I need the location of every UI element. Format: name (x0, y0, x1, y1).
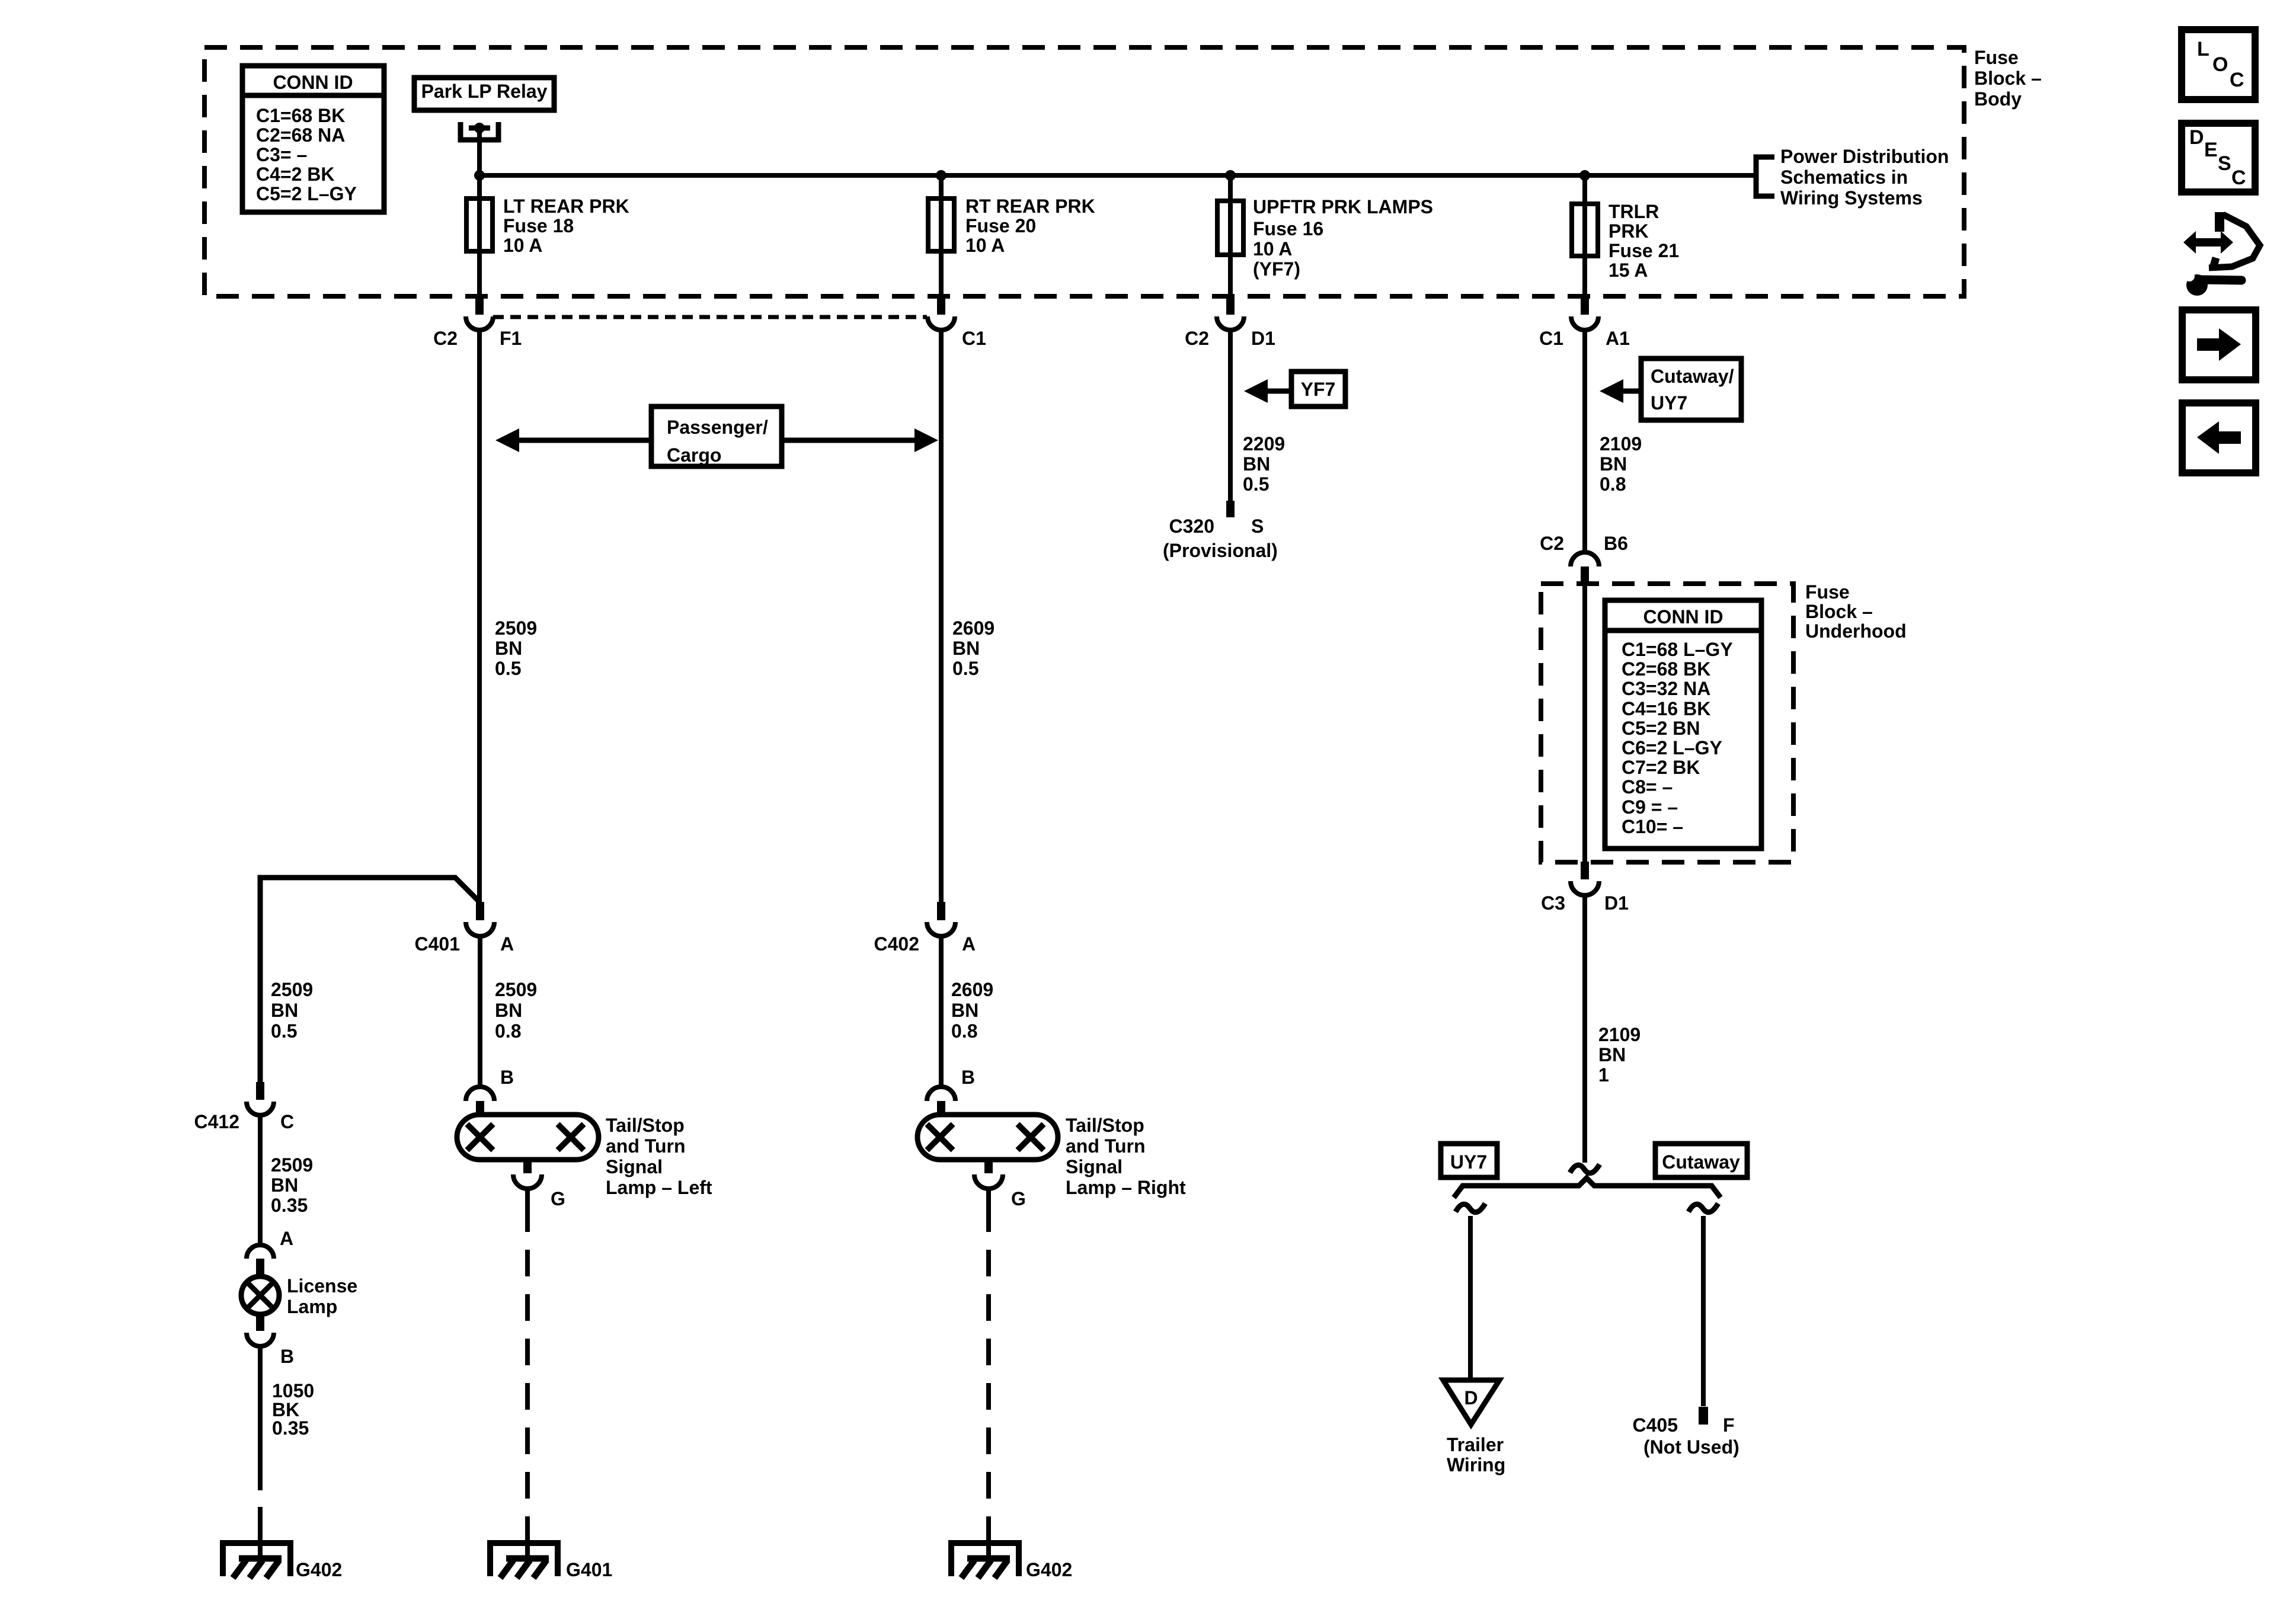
svg-text:S: S (1251, 516, 1264, 537)
connector pin G - right lamp (974, 1160, 1026, 1209)
connector pin G - left lamp (513, 1160, 565, 1209)
svg-text:Lamp: Lamp (287, 1296, 337, 1317)
lamp - tail/stop and turn signal lamp left (457, 1115, 712, 1198)
svg-text:G: G (551, 1188, 565, 1209)
svg-text:15 A: 15 A (1609, 260, 1648, 281)
svg-text:2509: 2509 (495, 617, 537, 639)
svg-text:2509: 2509 (271, 979, 313, 1000)
svg-text:E: E (2204, 139, 2218, 161)
svg-text:YF7: YF7 (1301, 379, 1336, 400)
CONN ID table - fuse block body (242, 66, 384, 212)
svg-text:Power Distribution: Power Distribution (1780, 146, 1949, 167)
svg-text:Schematics in: Schematics in (1780, 167, 1908, 188)
svg-text:O: O (2212, 53, 2228, 76)
svg-text:G402: G402 (1026, 1559, 1072, 1580)
svg-text:BN: BN (495, 1000, 522, 1021)
svg-text:UPFTR PRK LAMPS: UPFTR PRK LAMPS (1253, 196, 1433, 217)
svg-text:C320: C320 (1169, 516, 1215, 537)
connector C402 pin A (874, 902, 976, 955)
svg-text:C1=68 L–GY: C1=68 L–GY (1622, 639, 1733, 660)
wire - branch to license lamp (260, 878, 480, 1082)
svg-text:Underhood: Underhood (1805, 620, 1907, 642)
svg-text:C1: C1 (1539, 328, 1563, 349)
svg-text:B: B (961, 1067, 975, 1088)
svg-text:Fuse 16: Fuse 16 (1253, 218, 1323, 239)
connector pin A - license lamp (247, 1228, 293, 1275)
svg-text:A1: A1 (1606, 328, 1630, 349)
svg-text:0.35: 0.35 (272, 1417, 309, 1439)
connector C1 (fuse block body, RT) (928, 295, 986, 349)
svg-text:TRLR: TRLR (1609, 201, 1659, 222)
option arrow Cutaway/UY7 (1600, 359, 1741, 420)
wire label 2109 BN 0.8 (1600, 433, 1642, 495)
svg-text:F1: F1 (500, 328, 522, 349)
svg-text:C5=2 L–GY: C5=2 L–GY (256, 183, 357, 204)
svg-text:BN: BN (952, 638, 980, 659)
fuse 21 TRLR PRK (1572, 201, 1679, 281)
sidebar icon forward arrow (2182, 310, 2256, 380)
wire label 2609 BN 0.8 (951, 979, 993, 1042)
sidebar icon LOC (2182, 30, 2255, 100)
Cutaway option label box (1655, 1144, 1747, 1177)
svg-text:A: A (280, 1228, 293, 1249)
svg-text:0.8: 0.8 (951, 1020, 977, 1042)
connector pin B - license lamp (247, 1333, 294, 1367)
svg-text:0.5: 0.5 (495, 658, 521, 679)
wire 2109 BN 1 - C3 to option split (1582, 895, 1587, 1163)
svg-text:CONN ID: CONN ID (273, 72, 353, 93)
wire - fuse 20 feed (939, 175, 944, 296)
wire - fuse 18 feed (477, 175, 482, 296)
svg-text:1050: 1050 (272, 1380, 314, 1401)
svg-text:2209: 2209 (1243, 433, 1285, 454)
svg-text:C1=68 BK: C1=68 BK (256, 105, 345, 126)
svg-text:CONN ID: CONN ID (1643, 606, 1723, 628)
svg-text:BN: BN (271, 1174, 298, 1196)
connector pin B - right lamp (927, 1067, 975, 1115)
svg-text:Cargo: Cargo (667, 444, 721, 466)
svg-text:Cutaway/: Cutaway/ (1651, 366, 1734, 387)
svg-text:C10= –: C10= – (1622, 816, 1683, 837)
svg-text:C3=32 NA: C3=32 NA (1622, 678, 1710, 699)
svg-text:C2: C2 (1185, 328, 1209, 349)
svg-text:Fuse: Fuse (1974, 47, 2019, 68)
svg-text:(YF7): (YF7) (1253, 258, 1300, 280)
svg-text:(Provisional): (Provisional) (1163, 540, 1278, 561)
svg-text:B6: B6 (1604, 533, 1628, 554)
svg-text:C3: C3 (1541, 892, 1565, 914)
svg-text:BN: BN (271, 1000, 298, 1021)
svg-text:UY7: UY7 (1651, 392, 1687, 414)
wire break symbol - Cutaway branch (1689, 1204, 1718, 1212)
connector C2 pin D1 (fuse block body) (1185, 295, 1275, 349)
destination triangle D - trailer wiring (1443, 1380, 1505, 1475)
svg-text:C4=16 BK: C4=16 BK (1622, 698, 1710, 719)
svg-text:Wiring: Wiring (1447, 1454, 1505, 1475)
svg-text:A: A (962, 933, 976, 955)
connector C2 pin F1 (fuse block body) (433, 295, 522, 349)
svg-text:BN: BN (1600, 453, 1627, 475)
svg-text:C412: C412 (194, 1111, 240, 1132)
svg-text:BN: BN (951, 1000, 978, 1021)
svg-text:D1: D1 (1251, 328, 1275, 349)
connector C412 pin C (194, 1082, 295, 1132)
UY7 option label box (1441, 1144, 1497, 1177)
wire 2609 BN 0.5 - fuse 20 to C402 (939, 330, 944, 902)
wire label 2509 BN 0.35 (271, 1154, 313, 1216)
svg-text:UY7: UY7 (1450, 1151, 1487, 1173)
wire - UY7 branch to trailer wiring (1468, 1216, 1473, 1380)
svg-text:C5=2 BN: C5=2 BN (1622, 718, 1700, 739)
svg-text:BN: BN (495, 638, 522, 659)
svg-text:Block –: Block – (1974, 68, 2042, 89)
svg-text:C402: C402 (874, 933, 920, 955)
svg-text:Signal: Signal (606, 1156, 663, 1177)
wire 2509 BN 0.8 - C401 to lamp (478, 936, 482, 1087)
wire 2209 BN 0.5 - fuse 16 to C320 (1228, 330, 1233, 501)
wire - right lamp ground lead (986, 1189, 991, 1543)
connector C1 pin A1 (fuse block body) (1539, 295, 1630, 349)
wire label 2609 BN 0.5 (952, 617, 994, 679)
svg-text:G402: G402 (296, 1559, 342, 1580)
svg-text:Lamp – Right: Lamp – Right (1066, 1177, 1186, 1198)
svg-text:C: C (280, 1111, 294, 1132)
svg-text:0.8: 0.8 (495, 1020, 521, 1042)
svg-text:2609: 2609 (952, 617, 994, 639)
wire break symbol - UY7 branch (1456, 1204, 1485, 1212)
svg-text:S: S (2218, 152, 2231, 175)
connector C401 pin A (415, 902, 514, 955)
svg-text:2609: 2609 (951, 979, 993, 1000)
lamp - tail/stop and turn signal lamp right (917, 1115, 1186, 1198)
node - junction at fuse 18 (474, 170, 485, 181)
wire label 2109 BN 1 (1598, 1024, 1641, 1086)
dotted connector tie line (493, 315, 927, 319)
svg-text:D1: D1 (1604, 892, 1629, 914)
svg-text:Wiring Systems: Wiring Systems (1780, 187, 1923, 209)
wire label 2209 BN 0.5 (1243, 433, 1285, 495)
svg-text:Tail/Stop: Tail/Stop (1066, 1115, 1144, 1136)
sidebar icon back arrow (2182, 403, 2256, 473)
wire - through fuse block underhood (1582, 585, 1587, 862)
wire label 2509 BN 0.5 (branch) (271, 979, 313, 1042)
svg-text:Lamp – Left: Lamp – Left (606, 1177, 712, 1198)
relay K - park lamp relay contact (461, 122, 498, 140)
svg-text:Body: Body (1974, 88, 2022, 110)
svg-text:License: License (287, 1275, 357, 1297)
svg-text:and Turn: and Turn (606, 1135, 686, 1157)
wire 1050 BK 0.35 - license lamp ground lead (258, 1346, 263, 1543)
Park LP Relay label box (414, 78, 554, 110)
wire 2109 BN 0.8 - fuse 21 to C2 underhood (1582, 330, 1587, 552)
svg-text:C7=2 BK: C7=2 BK (1622, 757, 1700, 778)
wire - power feed bus (479, 173, 1756, 178)
wire - relay stem (477, 128, 482, 175)
svg-text:Cutaway: Cutaway (1662, 1151, 1740, 1173)
svg-text:2109: 2109 (1600, 433, 1642, 454)
svg-text:C: C (2230, 69, 2244, 91)
svg-text:F: F (1723, 1414, 1735, 1436)
svg-text:BN: BN (1598, 1044, 1626, 1065)
svg-text:LT REAR PRK: LT REAR PRK (503, 196, 629, 217)
wire 2509 BN 0.5 - fuse 18 to C401 (477, 330, 482, 902)
svg-text:2509: 2509 (271, 1154, 313, 1176)
svg-text:10 A: 10 A (1253, 238, 1292, 260)
svg-text:C2: C2 (433, 328, 458, 349)
fuse block - underhood label (1805, 581, 1907, 642)
svg-text:C8= –: C8= – (1622, 776, 1673, 798)
wire label 2509 BN 0.5 (upper left) (495, 617, 537, 679)
fuse 18 LT REAR PRK (466, 196, 629, 256)
svg-text:C4=2 BK: C4=2 BK (256, 164, 335, 185)
svg-text:Tail/Stop: Tail/Stop (606, 1115, 685, 1136)
svg-text:C405: C405 (1633, 1414, 1678, 1436)
bracket - power distribution reference (1756, 157, 1774, 196)
svg-text:C401: C401 (415, 933, 461, 955)
svg-text:Fuse: Fuse (1805, 581, 1850, 603)
node - junction at fuse 16 (1225, 170, 1236, 181)
power distribution reference label (1780, 146, 1949, 209)
svg-text:10 A: 10 A (965, 235, 1005, 256)
svg-text:Block –: Block – (1805, 601, 1873, 622)
svg-text:C6=2 L–GY: C6=2 L–GY (1622, 737, 1722, 758)
svg-text:C2: C2 (1540, 533, 1564, 554)
svg-text:0.8: 0.8 (1600, 473, 1626, 495)
fuse block - underhood dashed outline (1541, 584, 1793, 862)
lamp - license lamp (241, 1275, 357, 1331)
svg-text:B: B (500, 1067, 514, 1088)
svg-text:C1: C1 (962, 328, 986, 349)
svg-text:BN: BN (1243, 453, 1270, 475)
svg-text:0.35: 0.35 (271, 1195, 308, 1216)
svg-text:RT REAR PRK: RT REAR PRK (965, 196, 1095, 217)
ground G401 (490, 1541, 612, 1580)
svg-text:G401: G401 (566, 1559, 612, 1580)
connector C2 pin B6 (fuse block underhood) (1540, 533, 1628, 585)
svg-text:Fuse 21: Fuse 21 (1609, 240, 1679, 261)
svg-text:Passenger/: Passenger/ (667, 417, 768, 438)
connector C3 pin D1 (fuse block underhood) (1541, 862, 1629, 914)
svg-text:C2=68 BK: C2=68 BK (1622, 658, 1710, 680)
svg-text:Fuse 18: Fuse 18 (503, 215, 574, 236)
connector C320 pin S (Provisional) (1163, 501, 1278, 561)
svg-text:D: D (2189, 126, 2204, 149)
svg-text:and Turn: and Turn (1066, 1135, 1146, 1157)
svg-text:L: L (2197, 38, 2209, 60)
node - junction at fuse 21 (1579, 170, 1590, 181)
ground G402 - right (951, 1541, 1072, 1580)
wire - Cutaway branch to C405 (1701, 1216, 1706, 1406)
wire - left lamp ground lead (525, 1189, 530, 1543)
svg-text:Trailer: Trailer (1447, 1434, 1504, 1455)
connector C405 pin F (Not Used) (1633, 1407, 1739, 1458)
connector pin B - left lamp (466, 1067, 514, 1115)
wire 2509 BN 0.35 - C412 to license lamp (258, 1115, 263, 1245)
svg-text:(Not Used): (Not Used) (1643, 1436, 1739, 1458)
svg-text:C9 = –: C9 = – (1622, 796, 1678, 818)
svg-text:Signal: Signal (1066, 1156, 1123, 1177)
node - junction at fuse 20 (936, 170, 946, 181)
sidebar icon DESC (2182, 123, 2255, 192)
CONN ID table - fuse block underhood (1605, 600, 1761, 849)
svg-text:Park LP Relay: Park LP Relay (421, 81, 548, 102)
svg-text:1: 1 (1598, 1064, 1609, 1086)
ground G402 - left (223, 1541, 342, 1580)
fuse block - body label (1974, 47, 2042, 110)
svg-text:Fuse 20: Fuse 20 (965, 215, 1036, 236)
svg-text:0.5: 0.5 (1243, 473, 1269, 495)
wire label 1050 BK 0.35 (272, 1380, 314, 1439)
wire break symbol - main (1570, 1164, 1600, 1173)
svg-text:C3= –: C3= – (256, 144, 307, 165)
svg-text:10 A: 10 A (503, 235, 542, 256)
wire label 2509 BN 0.8 (495, 979, 537, 1042)
wire - fuse 21 feed (1582, 175, 1587, 296)
wire - fuse 16 feed (1228, 175, 1233, 296)
sidebar icon schematic/service (2180, 212, 2260, 296)
fuse 16 UPFTR PRK LAMPS (1217, 196, 1433, 280)
option brace UY7/Cutaway (1454, 1178, 1721, 1198)
svg-text:C: C (2231, 167, 2246, 189)
svg-text:0.5: 0.5 (271, 1020, 297, 1042)
svg-text:G: G (1011, 1188, 1026, 1209)
svg-text:A: A (500, 933, 514, 955)
svg-text:C2=68 NA: C2=68 NA (256, 124, 345, 146)
option arrow YF7 (1244, 372, 1345, 406)
svg-text:D: D (1464, 1387, 1478, 1409)
fuse block - body dashed outline (204, 47, 1964, 296)
svg-text:2109: 2109 (1598, 1024, 1641, 1045)
svg-text:0.5: 0.5 (952, 658, 978, 679)
wire 2609 BN 0.8 - C402 to lamp (939, 936, 944, 1087)
svg-text:PRK: PRK (1609, 220, 1649, 242)
svg-text:B: B (280, 1346, 294, 1367)
svg-text:2509: 2509 (495, 979, 537, 1000)
fuse 20 RT REAR PRK (928, 196, 1095, 256)
Passenger/Cargo range arrow and box (495, 406, 938, 466)
